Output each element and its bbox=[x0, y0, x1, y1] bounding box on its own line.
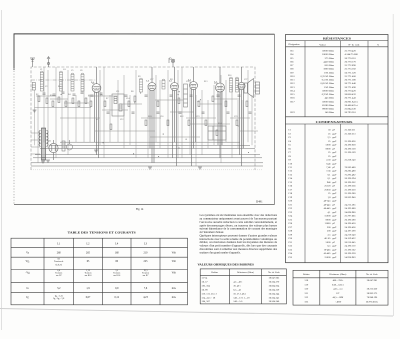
svg-text:R3: R3 bbox=[291, 50, 295, 53]
svg-text:0,1: 0,1 bbox=[327, 177, 331, 180]
svg-text:C35: C35 bbox=[288, 256, 293, 259]
svg-text:µµF: µµF bbox=[332, 170, 337, 173]
svg-text:40-145: 40-145 bbox=[324, 200, 332, 203]
svg-text:11000: 11000 bbox=[324, 222, 331, 225]
svg-text:mA: mA bbox=[172, 296, 176, 299]
svg-text:µµF: µµF bbox=[332, 196, 337, 199]
svg-text:0,67: 0,67 bbox=[86, 296, 91, 299]
svg-text:7,56: 7,56 bbox=[326, 170, 331, 173]
svg-text:C15: C15 bbox=[288, 181, 293, 184]
svg-text:8000: 8000 bbox=[326, 218, 332, 221]
svg-text:50000 Ohm: 50000 Ohm bbox=[322, 100, 334, 103]
svg-text:N° de code: N° de code bbox=[348, 43, 360, 46]
coil T8 bbox=[236, 77, 239, 92]
svg-text:C7: C7 bbox=[88, 95, 90, 97]
tube L6 bbox=[238, 67, 245, 166]
svg-text:24.219.540: 24.219.540 bbox=[345, 233, 357, 236]
svg-text:40+65: 40+65 bbox=[324, 237, 331, 240]
svg-text:C1: C1 bbox=[40, 69, 42, 71]
svg-text:C5: C5 bbox=[71, 70, 73, 72]
svg-text:54.926.963: 54.926.963 bbox=[345, 256, 357, 259]
svg-text:C23: C23 bbox=[288, 211, 293, 214]
component labels bbox=[36, 69, 247, 125]
svg-text:26.664.034: 26.664.034 bbox=[269, 284, 280, 287]
svg-text:375 Ohm: 375 Ohm bbox=[325, 57, 334, 60]
svg-text:R6: R6 bbox=[291, 60, 295, 63]
svg-text:No. de Code: No. de Code bbox=[268, 271, 280, 274]
svg-text:0,25 M. Ohm: 0,25 M. Ohm bbox=[321, 75, 335, 78]
front-end cathode bus bbox=[35, 107, 92, 109]
svg-text:C33: C33 bbox=[288, 248, 293, 251]
svg-text:R10: R10 bbox=[148, 116, 151, 118]
svg-text:26.203.940: 26.203.940 bbox=[345, 196, 357, 199]
svg-text:510, 511, 512, 2: 510, 511, 512, 2 bbox=[202, 292, 218, 295]
svg-text:50: 50 bbox=[328, 129, 331, 132]
svg-text:26.564.246: 26.564.246 bbox=[269, 300, 280, 303]
svg-text:90000 Ohm: 90000 Ohm bbox=[322, 108, 334, 111]
svg-text:25050: 25050 bbox=[324, 188, 331, 191]
svg-text:56, 98: 56, 98 bbox=[202, 288, 209, 291]
svg-text:500: 500 bbox=[327, 230, 331, 233]
svg-text:521: 521 bbox=[305, 292, 309, 295]
svg-text:µµF: µµF bbox=[332, 211, 337, 214]
svg-text:946: 946 bbox=[327, 181, 331, 184]
svg-text:56, 57: 56, 57 bbox=[202, 280, 209, 283]
svg-text:R7: R7 bbox=[291, 64, 295, 67]
svg-text:R5: R5 bbox=[291, 57, 295, 60]
svg-text:R11: R11 bbox=[291, 79, 296, 82]
svg-text:R10: R10 bbox=[291, 75, 296, 78]
svg-text:L3: L3 bbox=[144, 242, 148, 245]
svg-text:C4: C4 bbox=[63, 69, 65, 71]
svg-text:30, 40 t: 30, 40 t bbox=[233, 284, 240, 287]
svg-text:54.197.590: 54.197.590 bbox=[345, 230, 357, 233]
svg-text:µµF: µµF bbox=[332, 226, 337, 229]
svg-text:460—700 t: 460—700 t bbox=[333, 279, 344, 282]
svg-text:26.283.480: 26.283.480 bbox=[345, 170, 357, 173]
svg-text:25.160.211: 25.160.211 bbox=[345, 129, 357, 132]
svg-text:26.771.580: 26.771.580 bbox=[345, 79, 357, 82]
transformer leads bbox=[31, 133, 40, 154]
ground symbols bbox=[33, 110, 203, 169]
chassis dotted bottom line bbox=[31, 169, 263, 171]
svg-text:50000 Ohm: 50000 Ohm bbox=[322, 50, 334, 53]
svg-text:%: % bbox=[377, 43, 379, 46]
svg-text:µµF: µµF bbox=[332, 188, 337, 191]
antenna A1 bbox=[30, 58, 35, 67]
svg-text:7,46: 7,46 bbox=[326, 166, 331, 169]
svg-text:1 M. Ohm: 1 M. Ohm bbox=[324, 86, 334, 89]
svg-text:R14: R14 bbox=[218, 123, 221, 125]
tube L5 bbox=[216, 67, 225, 158]
svg-text:25.773.182: 25.773.182 bbox=[345, 68, 357, 71]
svg-text:C4: C4 bbox=[288, 140, 292, 143]
svg-text:65: 65 bbox=[87, 260, 90, 263]
svg-text:µµF: µµF bbox=[332, 237, 337, 240]
svg-text:18000 Ohm: 18000 Ohm bbox=[322, 53, 334, 56]
svg-text:24.213.585: 24.213.585 bbox=[345, 203, 357, 206]
svg-text:L4: L4 bbox=[115, 242, 119, 245]
svg-text:R3: R3 bbox=[50, 95, 52, 97]
svg-text:0,1: 0,1 bbox=[327, 173, 331, 176]
svg-text:CONDENSATEURS: CONDENSATEURS bbox=[316, 120, 353, 124]
svg-text:24.190.430: 24.190.430 bbox=[345, 222, 357, 225]
svg-text:26.770.110: 26.770.110 bbox=[345, 57, 357, 60]
svg-text:µµF: µµF bbox=[332, 256, 337, 259]
svg-text:26.564.270: 26.564.270 bbox=[269, 280, 280, 283]
svg-text:26.190.028: 26.190.028 bbox=[345, 144, 357, 147]
wires horizontal connectors bbox=[36, 96, 258, 137]
svg-text:Va: Va bbox=[26, 252, 30, 255]
svg-text:R16: R16 bbox=[291, 97, 296, 100]
resistors bbox=[38, 96, 248, 136]
svg-text:+ 4000: + 4000 bbox=[335, 301, 342, 304]
resistances/condensateurs table frame bbox=[286, 35, 389, 263]
svg-text:C9: C9 bbox=[288, 159, 292, 162]
svg-text:C2: C2 bbox=[288, 132, 292, 135]
svg-text:C19: C19 bbox=[196, 116, 199, 118]
coil T3 bbox=[71, 73, 74, 91]
svg-text:6,5—42: 6,5—42 bbox=[233, 288, 241, 291]
svg-text:26.901.841 s/: 26.901.841 s/ bbox=[345, 100, 359, 103]
svg-text:C8: C8 bbox=[288, 155, 292, 158]
svg-text:C6: C6 bbox=[80, 70, 82, 72]
svg-text:R17: R17 bbox=[291, 100, 296, 103]
condensateur rows bbox=[288, 129, 356, 259]
svg-text:0,9: 0,9 bbox=[115, 287, 119, 290]
svg-text:R15: R15 bbox=[291, 93, 296, 96]
svg-text:210: 210 bbox=[144, 252, 149, 255]
svg-text:µµF: µµF bbox=[332, 173, 337, 176]
svg-text:C32: C32 bbox=[288, 245, 293, 248]
antenna coil box bbox=[32, 83, 35, 91]
svg-text:40-445: 40-445 bbox=[324, 203, 332, 206]
junction dots bbox=[61, 91, 250, 157]
svg-text:2,50: 2,50 bbox=[326, 159, 331, 162]
svg-text:Bobine: Bobine bbox=[303, 273, 310, 276]
coil T4 bbox=[81, 73, 84, 91]
svg-text:C26: C26 bbox=[288, 222, 293, 225]
svg-text:µµF: µµF bbox=[332, 159, 337, 162]
svg-text:µµF: µµF bbox=[332, 245, 337, 248]
svg-text:300: 300 bbox=[327, 226, 331, 229]
svg-text:4,35—5,5: 4,35—5,5 bbox=[333, 288, 343, 291]
svg-text:26.190.302: 26.190.302 bbox=[345, 181, 357, 184]
svg-text:25.772.890: 25.772.890 bbox=[345, 64, 357, 67]
svg-text:µµF: µµF bbox=[332, 155, 337, 158]
svg-text:C19: C19 bbox=[288, 196, 293, 199]
svg-text:C29: C29 bbox=[288, 233, 293, 236]
svg-text:µF: µF bbox=[332, 129, 335, 132]
svg-text:26.210.045: 26.210.045 bbox=[345, 241, 357, 244]
svg-text:C24: C24 bbox=[214, 83, 217, 85]
svg-text:C17: C17 bbox=[288, 188, 293, 191]
svg-text:0,46: 0,46 bbox=[326, 162, 331, 165]
svg-text:2,5: 2,5 bbox=[327, 233, 331, 236]
svg-text:µF: µF bbox=[332, 185, 335, 188]
svg-text:56.771.520: 56.771.520 bbox=[345, 71, 357, 74]
tube L4 bbox=[190, 67, 198, 166]
svg-text:D491: D491 bbox=[256, 199, 263, 203]
svg-text:sur R7: sur R7 bbox=[56, 275, 63, 277]
svg-text:4,1: 4,1 bbox=[327, 211, 331, 214]
svg-text:Désignation: Désignation bbox=[288, 43, 300, 46]
svg-text:R19: R19 bbox=[291, 111, 296, 114]
svg-text:µµF: µµF bbox=[332, 132, 337, 135]
svg-text:Ig₄+Ig₅ : 3,8: Ig₄+Ig₅ : 3,8 bbox=[53, 297, 65, 300]
svg-text:C1: C1 bbox=[288, 129, 292, 132]
svg-text:C24: C24 bbox=[288, 215, 293, 218]
filter choke bbox=[62, 141, 65, 151]
svg-text:4450 Ohm: 4450 Ohm bbox=[323, 60, 334, 63]
resistance rows bbox=[291, 50, 359, 115]
svg-text:4,23: 4,23 bbox=[143, 296, 148, 299]
svg-text:TABLE DES TENSIONS ET COURANTS: TABLE DES TENSIONS ET COURANTS bbox=[68, 230, 136, 234]
svg-text:25.797.665: 25.797.665 bbox=[345, 215, 357, 218]
antenna A2 bbox=[47, 57, 50, 68]
svg-text:C3: C3 bbox=[288, 136, 292, 139]
svg-text:265: 265 bbox=[86, 252, 91, 255]
tube L1 bbox=[92, 67, 101, 158]
svg-text:Vg₂: Vg₂ bbox=[25, 260, 29, 263]
svg-text:26.856.432: 26.856.432 bbox=[345, 93, 357, 96]
figure frame left dotted bbox=[13, 68, 15, 205]
svg-text:soudures d'un grand nombre d'a: soudures d'un grand nombre d'appareils. bbox=[200, 251, 241, 254]
svg-text:6,5: 6,5 bbox=[327, 245, 331, 248]
coil T1 bbox=[40, 71, 43, 91]
svg-text:RÉSISTANCES: RÉSISTANCES bbox=[323, 35, 351, 40]
svg-text:15000: 15000 bbox=[324, 215, 331, 218]
svg-text:76.263.480: 76.263.480 bbox=[345, 166, 357, 169]
svg-text:25.190.109: 25.190.109 bbox=[345, 151, 357, 154]
svg-text:4.144/75.080: 4.144/75.080 bbox=[345, 53, 359, 56]
svg-text:Tension: Tension bbox=[113, 273, 121, 275]
svg-text:Tension: Tension bbox=[85, 273, 93, 275]
svg-text:Ig: Ig bbox=[26, 296, 29, 299]
svg-text:504, 507: 504, 507 bbox=[202, 300, 211, 303]
svg-text:50000 Ohm: 50000 Ohm bbox=[322, 89, 334, 92]
svg-text:520: 520 bbox=[305, 288, 309, 291]
schematic figure bbox=[30, 57, 263, 171]
svg-text:25: 25 bbox=[328, 151, 331, 154]
tensions header L1 L2 L4 L3 bbox=[57, 242, 147, 245]
svg-text:25.864.330: 25.864.330 bbox=[345, 108, 357, 111]
svg-text:6,6: 6,6 bbox=[57, 270, 61, 272]
svg-text:R12: R12 bbox=[180, 116, 183, 118]
tone control box bbox=[208, 126, 226, 140]
power transformer bbox=[39, 128, 48, 160]
svg-text:140—5-0: 140—5-0 bbox=[233, 300, 243, 303]
svg-text:C27: C27 bbox=[288, 226, 293, 229]
svg-text:24.159.422: 24.159.422 bbox=[345, 237, 357, 240]
page scan bottom edge bbox=[0, 309, 393, 317]
svg-text:R14: R14 bbox=[291, 89, 296, 92]
svg-text:C28: C28 bbox=[288, 230, 293, 233]
svg-text:sur R16: sur R16 bbox=[113, 275, 121, 277]
svg-text:25: 25 bbox=[328, 155, 331, 158]
svg-text:R4: R4 bbox=[291, 53, 295, 56]
IF can box bbox=[112, 94, 124, 116]
svg-text:Ig₂ : 1,35: Ig₂ : 1,35 bbox=[55, 294, 64, 297]
svg-text:0,65 M. Ohm: 0,65 M. Ohm bbox=[321, 82, 335, 85]
svg-text:514, 41,5 + 58: 514, 41,5 + 58 bbox=[202, 296, 216, 299]
svg-text:2,5: 2,5 bbox=[327, 136, 331, 139]
svg-text:µµF: µµF bbox=[332, 177, 337, 180]
svg-text:C16: C16 bbox=[288, 185, 293, 188]
svg-text:850 Ohm: 850 Ohm bbox=[325, 64, 334, 67]
svg-text:-Vg: -Vg bbox=[25, 272, 30, 275]
svg-text:0,12: 0,12 bbox=[114, 296, 119, 299]
coil T7 bbox=[230, 77, 233, 92]
svg-text:26.190.394: 26.190.394 bbox=[345, 177, 357, 180]
svg-text:C30: C30 bbox=[288, 237, 293, 240]
svg-text:C25: C25 bbox=[288, 218, 293, 221]
svg-text:R12: R12 bbox=[291, 82, 296, 85]
svg-text:µµF: µµF bbox=[332, 230, 337, 233]
svg-text:25.771.400: 25.771.400 bbox=[345, 75, 357, 78]
tensions rows bbox=[25, 252, 176, 301]
svg-text:C7: C7 bbox=[288, 151, 292, 154]
svg-text:26.793.310: 26.793.310 bbox=[345, 111, 357, 114]
svg-text:R2: R2 bbox=[36, 94, 38, 96]
svg-text:Résistance (Ohm): Résistance (Ohm) bbox=[329, 273, 346, 276]
svg-text:µF: µF bbox=[332, 241, 335, 244]
svg-text:C13: C13 bbox=[288, 173, 293, 176]
svg-text:522: 522 bbox=[305, 296, 309, 299]
svg-text:26.190.580: 26.190.580 bbox=[345, 218, 357, 221]
svg-text:R6: R6 bbox=[92, 83, 94, 85]
svg-text:Tension de: Tension de bbox=[54, 261, 64, 263]
svg-text:µµF: µµF bbox=[332, 162, 337, 165]
svg-text:26.406.425 s/: 26.406.425 s/ bbox=[345, 104, 359, 107]
svg-text:µµF: µµF bbox=[332, 200, 337, 203]
svg-text:Volt: Volt bbox=[172, 252, 177, 255]
svg-text:C2: C2 bbox=[45, 86, 47, 88]
svg-text:45-465: 45-465 bbox=[324, 252, 332, 255]
svg-text:D: D bbox=[170, 58, 172, 61]
svg-text:25: 25 bbox=[328, 140, 331, 143]
svg-text:50, 57 A 40,5: 50, 57 A 40,5 bbox=[233, 292, 246, 295]
svg-text:R4: R4 bbox=[68, 94, 70, 96]
wires vertical drops bbox=[35, 67, 253, 166]
svg-text:R16: R16 bbox=[228, 75, 231, 77]
svg-text:24.190.436: 24.190.436 bbox=[345, 226, 357, 229]
svg-text:260: 260 bbox=[57, 252, 62, 255]
AVC dash-dot line bbox=[31, 79, 96, 81]
page scan right edge bbox=[392, 14, 394, 316]
svg-text:503, 504: 503, 504 bbox=[202, 284, 211, 287]
svg-text:24.193.080: 24.193.080 bbox=[345, 207, 357, 210]
svg-text:C16: C16 bbox=[160, 116, 163, 118]
IF can box 2 bbox=[184, 84, 188, 107]
svg-text:Tension: Tension bbox=[142, 273, 150, 275]
svg-text:C6: C6 bbox=[288, 147, 292, 150]
svg-text:25.238.140: 25.238.140 bbox=[345, 159, 357, 162]
svg-text:0,60—0,65 t: 0,60—0,65 t bbox=[332, 283, 344, 286]
svg-text:C9: C9 bbox=[100, 95, 102, 97]
svg-text:C5: C5 bbox=[288, 144, 292, 147]
svg-text:µµF: µµF bbox=[332, 248, 337, 251]
svg-text:25120: 25120 bbox=[324, 185, 331, 188]
svg-text:26.564.245: 26.564.245 bbox=[269, 296, 280, 299]
svg-text:µF: µF bbox=[332, 166, 335, 169]
svg-text:26.564.244: 26.564.244 bbox=[269, 292, 280, 295]
svg-text:Volt: Volt bbox=[172, 260, 177, 263]
svg-text:160: 160 bbox=[115, 252, 120, 255]
svg-text:26.770.420: 26.770.420 bbox=[345, 89, 357, 92]
svg-text:4,2—40 t: 4,2—40 t bbox=[233, 280, 242, 283]
svg-text:µµF: µµF bbox=[332, 181, 337, 184]
tube L3 bbox=[171, 67, 179, 166]
svg-text:Tension: Tension bbox=[55, 273, 63, 275]
svg-text:76.948.190: 76.948.190 bbox=[367, 296, 378, 299]
svg-text:C31: C31 bbox=[288, 241, 293, 244]
chassis dashed outline bbox=[31, 67, 255, 170]
figure frame right bbox=[274, 34, 276, 204]
svg-text:R8: R8 bbox=[291, 68, 295, 71]
svg-text:26.771.490: 26.771.490 bbox=[345, 86, 357, 89]
dial lamp D bbox=[169, 58, 175, 67]
svg-text:Volt: Volt bbox=[172, 272, 177, 275]
svg-text:C11: C11 bbox=[288, 166, 293, 169]
svg-text:C14: C14 bbox=[126, 98, 129, 100]
capacitors bbox=[43, 92, 252, 113]
svg-text:C11: C11 bbox=[116, 91, 119, 93]
svg-text:518: 518 bbox=[305, 279, 309, 282]
svg-text:C21: C21 bbox=[288, 203, 293, 206]
svg-text:VALEURS OHMIQUES DES BOBINES: VALEURS OHMIQUES DES BOBINES bbox=[198, 262, 255, 266]
svg-text:65280 Ohm: 65280 Ohm bbox=[322, 104, 334, 107]
svg-text:µµF: µµF bbox=[332, 151, 337, 154]
svg-text:10-465: 10-465 bbox=[324, 248, 332, 251]
svg-text:µF: µF bbox=[332, 203, 335, 206]
svg-text:C23: C23 bbox=[234, 116, 237, 118]
svg-text:60: 60 bbox=[58, 259, 61, 261]
svg-text:L2: L2 bbox=[87, 242, 91, 245]
svg-text:25.199.230: 25.199.230 bbox=[345, 188, 357, 191]
svg-text:26.771.443: 26.771.443 bbox=[345, 97, 357, 100]
svg-text:51-54: 51-54 bbox=[202, 277, 208, 280]
svg-text:L6: L6 bbox=[48, 140, 51, 143]
svg-text:25.199.236: 25.199.236 bbox=[345, 185, 357, 188]
svg-text:26.976.612G: 26.976.612G bbox=[366, 301, 378, 304]
svg-text:µµF: µµF bbox=[332, 218, 337, 221]
svg-text:25.190.162: 25.190.162 bbox=[345, 248, 357, 251]
svg-text:1,8: 1,8 bbox=[327, 196, 331, 199]
svg-text:Fig. 14: Fig. 14 bbox=[136, 208, 144, 211]
bus lines bbox=[31, 142, 263, 166]
svg-text:519: 519 bbox=[305, 283, 309, 286]
svg-text:3,5: 3,5 bbox=[115, 270, 119, 272]
svg-text:25.190.280: 25.190.280 bbox=[345, 192, 357, 195]
svg-text:C21: C21 bbox=[186, 81, 189, 83]
svg-text:µµF: µµF bbox=[332, 207, 337, 210]
svg-text:sur R16: sur R16 bbox=[85, 275, 93, 277]
svg-text:C20: C20 bbox=[288, 200, 293, 203]
svg-text:26.564.259: 26.564.259 bbox=[269, 288, 280, 291]
svg-text:7,6: 7,6 bbox=[144, 287, 148, 290]
coil T6 bbox=[162, 79, 165, 89]
svg-text:60: 60 bbox=[115, 260, 118, 263]
svg-text:15000: 15000 bbox=[324, 256, 331, 259]
svg-text:24.190.110: 24.190.110 bbox=[345, 245, 357, 248]
svg-text:µµF: µµF bbox=[332, 192, 337, 195]
svg-text:25.770.420: 25.770.420 bbox=[345, 50, 357, 53]
svg-text:R8: R8 bbox=[131, 91, 133, 93]
svg-text:L1: L1 bbox=[57, 242, 61, 245]
figure frame top+left bbox=[14, 34, 275, 70]
svg-text:140 Ohm: 140 Ohm bbox=[325, 111, 334, 114]
